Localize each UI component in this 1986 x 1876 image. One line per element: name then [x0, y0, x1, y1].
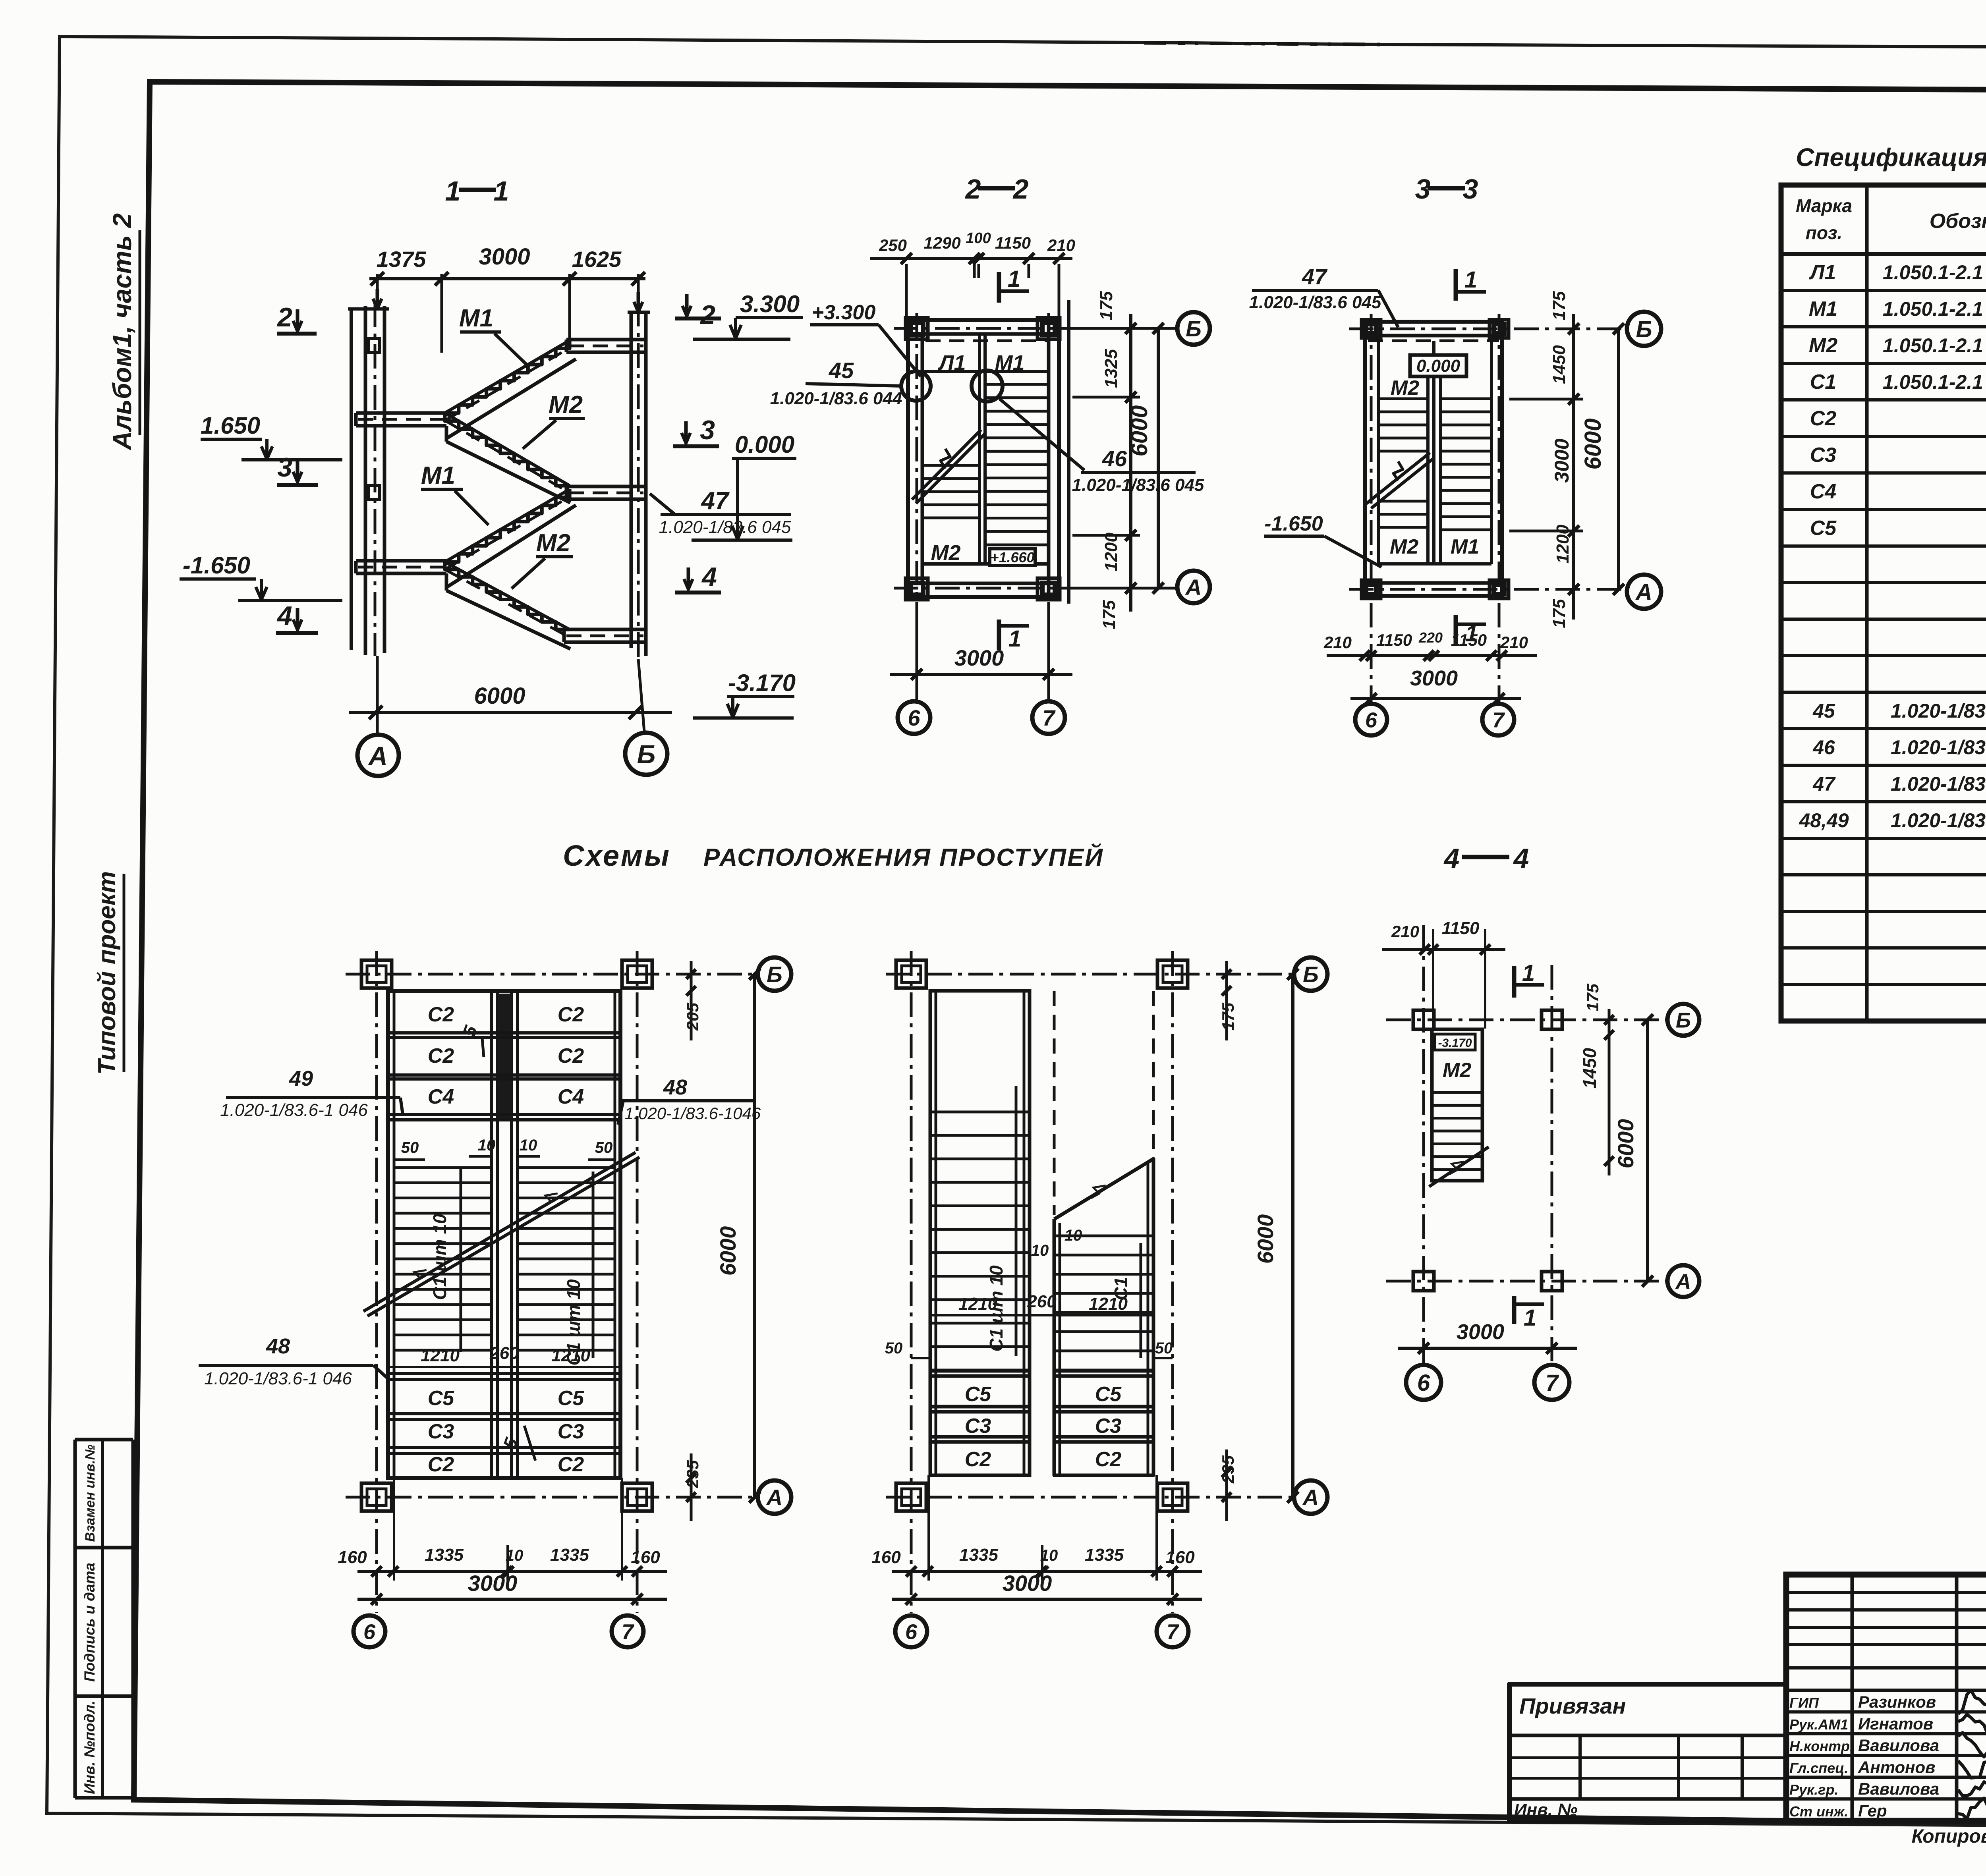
- plan44 dims 175 1450 right: [1608, 1009, 1611, 1175]
- svg-text:С5: С5: [965, 1383, 992, 1406]
- svg-text:6000: 6000: [715, 1226, 740, 1276]
- grid bubble Б of section 3-3: [1627, 312, 1661, 346]
- plan44 level box -3.170: [1435, 1034, 1475, 1050]
- svg-text:М2: М2: [1809, 334, 1837, 357]
- svg-text:1210: 1210: [1089, 1294, 1128, 1314]
- plan44 grid bubble 7: [1534, 1365, 1569, 1400]
- plan2 tread bracket left: [1015, 1086, 1018, 1356]
- svg-text:Типовой проект: Типовой проект: [93, 871, 121, 1075]
- title block vertical lines: [1851, 1575, 1854, 1821]
- plan1 grid bubble 6: [354, 1615, 385, 1647]
- plan2 corner columns: [896, 960, 926, 988]
- svg-text:10: 10: [506, 1547, 524, 1564]
- plan44 column centerline 7: [1551, 965, 1553, 1363]
- stair flight M2 upper steps: [445, 413, 570, 486]
- stair flight M2 lower steps: [445, 562, 570, 629]
- plan44 grid bubble Б: [1667, 1004, 1699, 1036]
- central stringers of section 3-3: [1426, 357, 1430, 564]
- svg-text:поз.: поз.: [1806, 222, 1842, 243]
- svg-text:50: 50: [595, 1139, 613, 1156]
- svg-text:7: 7: [1042, 705, 1056, 730]
- svg-text:3: 3: [277, 452, 292, 483]
- plan2 column centerline 6: [910, 951, 913, 1613]
- right dimension chain of section 3-3: [1572, 314, 1575, 620]
- svg-text:3.300: 3.300: [740, 291, 800, 317]
- svg-text:Обозначение: Обозначение: [1930, 210, 1986, 233]
- svg-text:7: 7: [622, 1620, 635, 1644]
- plan44 section flag 1 top: [1512, 966, 1517, 998]
- svg-text:1.020-1/83.6-1046: 1.020-1/83.6-1046: [624, 1104, 761, 1123]
- svg-text:6: 6: [363, 1620, 376, 1644]
- svg-text:6000: 6000: [1126, 405, 1152, 456]
- svg-text:3000: 3000: [479, 244, 530, 270]
- svg-text:175: 175: [1097, 291, 1116, 320]
- svg-text:Инв. №подл.: Инв. №подл.: [81, 1700, 98, 1794]
- svg-text:-3.170: -3.170: [728, 670, 796, 696]
- grid bubble 7 of section 3-3: [1482, 704, 1514, 735]
- svg-text:210: 210: [1500, 633, 1528, 652]
- plan2 grid line Б: [886, 973, 1293, 976]
- bottom dimension 3000 of section 2-2: [916, 604, 918, 687]
- svg-text:М1: М1: [995, 351, 1024, 375]
- svg-text:С2: С2: [965, 1448, 991, 1471]
- corner column squares of section 2-2: [906, 318, 928, 339]
- svg-text:4: 4: [701, 562, 717, 592]
- svg-text:1.050.1-2.1 05. 0.000: 1.050.1-2.1 05. 0.000: [1883, 298, 1986, 320]
- stairwell outline of section 2-2: [908, 320, 1059, 597]
- bottom dimension chain of section 3-3: [1327, 654, 1537, 657]
- right dimension chain of section 2-2: [1129, 314, 1132, 612]
- svg-text:3: 3: [1463, 174, 1478, 205]
- svg-text:1.020-1/83.6-1 084: 1.020-1/83.6-1 084: [1891, 736, 1986, 759]
- section line 1 top of section 2-2: [997, 272, 1001, 303]
- svg-text:Разинков: Разинков: [1858, 1693, 1936, 1711]
- plan1 column centerline 6: [375, 951, 378, 1613]
- svg-text:6000: 6000: [1580, 418, 1606, 469]
- svg-text:7: 7: [1167, 1620, 1180, 1644]
- plan44 column centerline 6: [1422, 925, 1425, 1363]
- flight treads left bay M2 of section 2-2: [922, 464, 979, 467]
- svg-text:3000: 3000: [954, 645, 1004, 670]
- flight M1 lower nosing dashed: [446, 496, 570, 569]
- column centerline 7 of section 2-2: [1047, 313, 1050, 700]
- svg-text:Ст инж.: Ст инж.: [1789, 1803, 1848, 1820]
- svg-text:А: А: [1635, 579, 1652, 605]
- svg-text:Привязан: Привязан: [1519, 1693, 1626, 1718]
- svg-text:4: 4: [276, 601, 292, 631]
- svg-text:С5: С5: [428, 1387, 455, 1410]
- svg-text:+3.300: +3.300: [812, 301, 876, 324]
- section line 1 top of section 3-3: [1454, 269, 1458, 301]
- svg-text:Гл.спец.: Гл.спец.: [1789, 1760, 1848, 1776]
- svg-text:1290: 1290: [923, 234, 960, 252]
- svg-text:175: 175: [1549, 291, 1569, 320]
- svg-text:РАСПОЛОЖЕНИЯ ПРОСТУПЕЙ: РАСПОЛОЖЕНИЯ ПРОСТУПЕЙ: [703, 843, 1104, 871]
- left wall of section 1-1: [350, 309, 353, 650]
- right wall of section 1-1: [630, 312, 633, 648]
- svg-text:1.020-1/83.6-1 084: 1.020-1/83.6-1 084: [1891, 809, 1986, 832]
- svg-text:Вавилова: Вавилова: [1858, 1779, 1939, 1798]
- svg-text:М2: М2: [549, 391, 583, 419]
- svg-text:С3: С3: [1810, 444, 1837, 467]
- plan44 bottom dim 3000: [1398, 1347, 1577, 1350]
- svg-text:Рук.АМ1: Рук.АМ1: [1789, 1716, 1848, 1733]
- svg-text:10: 10: [520, 1137, 537, 1154]
- svg-text:Игнатов: Игнатов: [1858, 1714, 1933, 1733]
- svg-text:160: 160: [338, 1548, 367, 1567]
- svg-text:С4: С4: [1810, 480, 1837, 503]
- top dimension line of section 2-2: [870, 257, 1072, 260]
- svg-text:1: 1: [1464, 267, 1477, 293]
- plan2 dim 6000 right: [1291, 974, 1294, 1497]
- svg-text:6: 6: [908, 705, 920, 730]
- svg-text:6: 6: [1365, 708, 1377, 732]
- plan44 stair M2 outline: [1432, 1029, 1482, 1181]
- svg-text:3000: 3000: [1003, 1571, 1052, 1596]
- privyazan extension box: [1509, 1684, 1786, 1821]
- stair flight M1 upper steps: [445, 340, 570, 413]
- svg-text:1450: 1450: [1579, 1048, 1600, 1089]
- plan1 grid line А: [346, 1496, 757, 1499]
- svg-text:1335: 1335: [550, 1545, 589, 1565]
- grid bubble А of section 3-3: [1627, 575, 1661, 609]
- plan1 lower tread row lines: [388, 1372, 620, 1375]
- svg-text:С1 шт 10: С1 шт 10: [429, 1214, 450, 1300]
- corner column squares of section 3-3: [1362, 320, 1381, 338]
- top dimension line of section 1-1: [369, 277, 645, 280]
- svg-text:160: 160: [1165, 1548, 1195, 1567]
- plan2 dim 235 right: [1225, 1449, 1228, 1521]
- flight M1 lower beam: [445, 573, 448, 587]
- svg-text:45: 45: [1812, 700, 1835, 722]
- svg-text:10: 10: [1064, 1227, 1082, 1244]
- plan44 dim 6000 right: [1646, 1020, 1649, 1281]
- svg-text:250: 250: [879, 236, 907, 255]
- svg-text:6000: 6000: [1253, 1214, 1278, 1264]
- plan2 left bay outline: [930, 991, 1030, 1475]
- svg-text:1450: 1450: [1549, 345, 1569, 384]
- plan44 section flag 1 bottom: [1512, 1296, 1517, 1324]
- grid line Б of section 3-3: [1349, 328, 1627, 330]
- svg-text:Схемы: Схемы: [563, 839, 671, 872]
- svg-text:46: 46: [1812, 736, 1835, 759]
- svg-text:1335: 1335: [425, 1545, 464, 1565]
- svg-text:160: 160: [871, 1548, 901, 1567]
- torn-edge dashes on top border: [1144, 43, 1380, 44]
- svg-text:С2: С2: [1810, 407, 1837, 430]
- svg-text:6000: 6000: [1613, 1119, 1638, 1169]
- svg-text:2: 2: [1012, 174, 1029, 205]
- svg-text:175: 175: [1549, 599, 1569, 628]
- plan1 dim 205 right: [690, 961, 693, 1040]
- svg-text:1335: 1335: [959, 1545, 998, 1565]
- break line of section 3-3: [1366, 453, 1430, 504]
- svg-text:Взамен инв.№: Взамен инв.№: [83, 1444, 98, 1542]
- svg-text:1.020-1/83.6 045: 1.020-1/83.6 045: [1249, 293, 1381, 312]
- hidden edge top of section 3-3: [1368, 340, 1499, 342]
- plan2 grid bubble 6: [895, 1615, 927, 1647]
- svg-text:1335: 1335: [1085, 1545, 1124, 1565]
- plan1 column centerline 7: [636, 951, 639, 1613]
- svg-text:Б: Б: [1186, 316, 1202, 341]
- plan1 bottom dim 3000: [357, 1598, 667, 1601]
- svg-text:Б: Б: [767, 962, 782, 987]
- svg-text:50: 50: [1155, 1339, 1173, 1357]
- column centerline 7 of section 3-3: [1498, 314, 1501, 702]
- svg-text:10: 10: [1040, 1547, 1058, 1564]
- title block frame: [1786, 1575, 1986, 1821]
- svg-text:6000: 6000: [474, 683, 525, 709]
- svg-text:49: 49: [289, 1067, 313, 1090]
- landing edge of section 2-2: [922, 370, 1049, 373]
- svg-text:М2: М2: [1390, 535, 1418, 558]
- svg-text:175: 175: [1219, 1002, 1237, 1031]
- svg-text:1210: 1210: [551, 1346, 590, 1365]
- svg-text:А: А: [1185, 575, 1202, 600]
- svg-text:-1.650: -1.650: [183, 552, 250, 579]
- svg-text:3: 3: [700, 415, 715, 445]
- svg-text:1210: 1210: [421, 1346, 460, 1365]
- specification table frame: [1781, 185, 1986, 1021]
- overall 6000 dimension of section 2-2: [1157, 328, 1160, 588]
- svg-text:А: А: [1675, 1270, 1691, 1293]
- svg-text:48,49: 48,49: [1799, 809, 1849, 832]
- svg-text:Н.контр.: Н.контр.: [1789, 1738, 1854, 1754]
- svg-text:М2: М2: [536, 529, 570, 557]
- svg-text:1.020-1/83.6-1 084: 1.020-1/83.6-1 084: [1891, 700, 1986, 722]
- landing slab at level 1.650: [356, 411, 446, 415]
- svg-text:Марка: Марка: [1796, 195, 1852, 216]
- svg-text:1: 1: [1008, 626, 1021, 652]
- grid bubble 6 of section 2-2: [898, 701, 930, 734]
- svg-text:Б: Б: [1636, 317, 1652, 342]
- svg-text:1: 1: [1524, 1305, 1536, 1331]
- svg-text:47: 47: [1302, 264, 1328, 289]
- column centerline 6 of section 2-2: [916, 313, 918, 700]
- svg-text:0.000: 0.000: [735, 431, 794, 458]
- specification table column lines: [1865, 185, 1869, 1021]
- svg-text:235: 235: [683, 1460, 702, 1488]
- svg-text:3000: 3000: [468, 1571, 518, 1596]
- plan2 grid bubble Б: [1294, 957, 1327, 991]
- bottom dimension 3000 of section 3-3: [1350, 697, 1521, 700]
- svg-text:1.020-1/83.6 045: 1.020-1/83.6 045: [1072, 475, 1204, 495]
- section line 1 bottom of section 2-2: [997, 620, 1001, 650]
- node circle 45: [901, 371, 931, 401]
- plan2 left bay treads: [930, 1111, 1030, 1114]
- svg-text:М1: М1: [1451, 535, 1479, 558]
- plan44 corner columns: [1413, 1010, 1434, 1029]
- svg-text:1: 1: [445, 176, 461, 207]
- svg-text:М1: М1: [1809, 297, 1837, 320]
- svg-text:50: 50: [885, 1339, 903, 1357]
- svg-text:1150: 1150: [1442, 919, 1480, 938]
- svg-text:Инв. №: Инв. №: [1514, 1800, 1578, 1820]
- svg-text:Копировал: Рулькова: Копировал: Рулькова: [1912, 1826, 1986, 1847]
- svg-text:7: 7: [1492, 708, 1505, 732]
- svg-text:С2: С2: [428, 1044, 454, 1067]
- plan2 grid bubble 7: [1157, 1615, 1188, 1647]
- flight M2 upper beam: [445, 426, 448, 442]
- svg-text:1: 1: [494, 176, 509, 207]
- stairwell outline of section 3-3: [1365, 322, 1502, 596]
- svg-text:С2: С2: [428, 1003, 454, 1026]
- plan1 grid bubble А: [758, 1480, 791, 1514]
- svg-text:ГИП: ГИП: [1789, 1695, 1819, 1711]
- landing slab at level -3.170: [564, 628, 646, 631]
- svg-text:С1: С1: [1810, 371, 1836, 394]
- wall socket details: [369, 338, 380, 353]
- column bubble A section 1-1: [357, 735, 399, 776]
- bottom dimension 6000 of section 1-1: [376, 656, 379, 733]
- plan1 central divider: [490, 991, 493, 1478]
- stair flight M1 lower steps: [445, 489, 570, 562]
- svg-text:С2: С2: [558, 1044, 584, 1067]
- svg-text:С3: С3: [428, 1420, 454, 1443]
- svg-text:3000: 3000: [1457, 1320, 1504, 1344]
- svg-text:210: 210: [1391, 922, 1419, 941]
- flight treads right bay of section 2-2: [985, 383, 1049, 386]
- column centerline 6 of section 3-3: [1370, 314, 1373, 702]
- svg-text:46: 46: [1102, 446, 1127, 471]
- svg-text:А: А: [1302, 1485, 1319, 1510]
- svg-text:Б: Б: [1303, 962, 1319, 987]
- svg-text:100: 100: [966, 230, 991, 247]
- svg-text:М2: М2: [931, 541, 960, 565]
- svg-text:1150: 1150: [1451, 631, 1487, 649]
- plan2 bottom dim 3000: [892, 1598, 1202, 1601]
- svg-text:1: 1: [1522, 960, 1535, 986]
- svg-text:С2: С2: [1095, 1448, 1122, 1471]
- grid bubble 6 of section 3-3: [1355, 704, 1387, 735]
- flight M2 lower nosing dashed: [446, 570, 569, 637]
- svg-text:160: 160: [631, 1548, 660, 1567]
- svg-text:48: 48: [266, 1334, 290, 1358]
- svg-text:С3: С3: [965, 1415, 991, 1438]
- margin stamp cells: [75, 1438, 133, 1442]
- svg-text:С2: С2: [558, 1003, 584, 1026]
- plan2 break marks: [1088, 1181, 1106, 1201]
- landing slab at level -1.650: [356, 559, 446, 563]
- svg-text:4: 4: [1513, 843, 1529, 874]
- plan44 grid line А: [1386, 1280, 1668, 1283]
- svg-text:210: 210: [1323, 633, 1352, 652]
- svg-text:47: 47: [1812, 773, 1836, 795]
- svg-text:Б: Б: [637, 739, 656, 769]
- flight M1 upper nosing dashed: [446, 347, 570, 420]
- landing slab at level 3.300: [566, 338, 646, 342]
- signature rows: [1786, 1710, 1986, 1714]
- central stringer of section 2-2: [978, 334, 981, 564]
- specification table row lines: [1781, 289, 1986, 292]
- svg-text:10: 10: [1031, 1242, 1049, 1259]
- svg-text:1.020-1/83.6-1 046: 1.020-1/83.6-1 046: [220, 1100, 368, 1120]
- plan1 stairwell outline: [388, 991, 620, 1478]
- svg-text:1200: 1200: [1553, 525, 1573, 564]
- plan1 bottom dim chain: [393, 1478, 395, 1581]
- flight M2 lower beam: [445, 573, 448, 591]
- svg-text:175: 175: [1099, 600, 1119, 629]
- plan2 dim 175 right: [1225, 961, 1228, 1040]
- plan44 top dims 210 1150: [1382, 948, 1505, 951]
- plan1 tread count bracket left: [460, 1168, 462, 1352]
- svg-text:М2: М2: [1391, 376, 1419, 400]
- svg-text:М1: М1: [459, 305, 493, 332]
- plan2 grid line А: [886, 1496, 1293, 1499]
- break line across left bay: [912, 430, 981, 500]
- plan1 tread count bracket right: [592, 1172, 595, 1358]
- svg-text:210: 210: [1047, 236, 1075, 255]
- plan1 grid line Б: [346, 973, 757, 976]
- svg-text:С4: С4: [558, 1085, 584, 1108]
- treads right bay of section 3-3: [1441, 398, 1491, 400]
- svg-text:Рук.гр.: Рук.гр.: [1789, 1781, 1839, 1798]
- svg-text:260: 260: [1027, 1292, 1057, 1311]
- plan1 break line: [363, 1152, 636, 1311]
- svg-text:2: 2: [276, 302, 292, 332]
- svg-text:1375: 1375: [377, 247, 426, 272]
- svg-text:1.650: 1.650: [201, 412, 260, 439]
- node 47 callout of section 1-1: [650, 494, 675, 515]
- grid bubble А of section 2-2: [1177, 571, 1210, 603]
- plan1 flight treads right bay: [518, 1166, 615, 1169]
- svg-text:3000: 3000: [1410, 666, 1458, 690]
- svg-text:0.000: 0.000: [1416, 356, 1461, 376]
- svg-text:1210: 1210: [958, 1294, 997, 1314]
- callout 46 with reference: [999, 399, 1084, 470]
- svg-text:1.050.1-2.1 17.0 00.0-02: 1.050.1-2.1 17.0 00.0-02: [1883, 261, 1986, 284]
- hidden edge at top landing: [925, 340, 1047, 342]
- plan1 dim 235 right: [690, 1453, 693, 1521]
- overall 6000 dimension of section 3-3: [1617, 329, 1620, 589]
- svg-text:48: 48: [663, 1075, 687, 1099]
- svg-text:-3.170: -3.170: [1438, 1036, 1472, 1050]
- flight M2 upper nosing dashed: [446, 421, 570, 493]
- section line 1 bottom of section 3-3: [1454, 615, 1458, 645]
- plan2 right bay treads: [1054, 1235, 1153, 1237]
- level box +1.660: [990, 549, 1035, 566]
- svg-text:1.020-1/83.6 044: 1.020-1/83.6 044: [770, 389, 902, 408]
- plan1 upper tread row lines: [388, 1031, 620, 1035]
- plan1 grid bubble 7: [612, 1615, 643, 1647]
- svg-text:С2: С2: [428, 1453, 454, 1476]
- svg-text:1.020-1/83.6 045: 1.020-1/83.6 045: [659, 517, 791, 537]
- svg-text:А: А: [766, 1485, 782, 1510]
- level box 0.000: [1410, 355, 1466, 376]
- svg-text:2: 2: [699, 300, 715, 330]
- svg-text:1200: 1200: [1101, 533, 1121, 571]
- signature squiggles: [1958, 1690, 1986, 1714]
- title block upper row lines: [1786, 1591, 1986, 1594]
- svg-text:175: 175: [1583, 983, 1602, 1011]
- svg-text:50: 50: [401, 1139, 419, 1156]
- svg-text:С5: С5: [1810, 517, 1837, 540]
- plan44 grid line Б: [1386, 1019, 1668, 1021]
- plan2 tread bracket right: [1140, 1243, 1142, 1358]
- svg-text:С5: С5: [1095, 1383, 1122, 1406]
- plan2 column centerline 7: [1171, 951, 1174, 1613]
- plan2 grid bubble А: [1294, 1480, 1327, 1514]
- svg-text:1.020-1/83.6-1 084: 1.020-1/83.6-1 084: [1891, 773, 1986, 795]
- svg-text:Альбом1, часть 2: Альбом1, часть 2: [107, 213, 137, 451]
- svg-text:10: 10: [478, 1137, 496, 1154]
- plan1 grid bubble Б: [758, 957, 791, 991]
- grid bubble 7 of section 2-2: [1032, 701, 1065, 734]
- svg-text:7: 7: [1546, 1370, 1559, 1396]
- plan1 dim 6000 right: [753, 974, 756, 1497]
- column bubble Б section 1-1: [625, 733, 667, 775]
- svg-text:С3: С3: [558, 1420, 584, 1443]
